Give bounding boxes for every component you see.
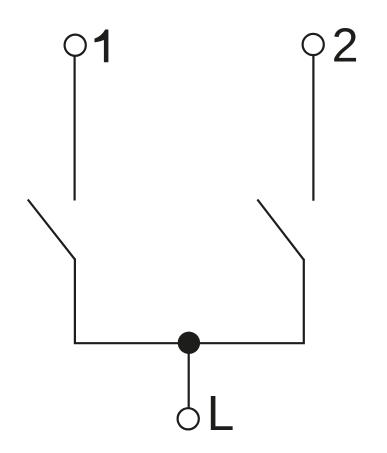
svg-text:L: L bbox=[207, 386, 235, 441]
junction node (common point) bbox=[178, 332, 200, 354]
switch S2 blade (right, open) bbox=[257, 200, 303, 260]
terminal 2 (open circle) bbox=[303, 34, 324, 55]
wire from terminal 1 down to switch contact bbox=[73, 45, 75, 201]
wire from S1 pivot down and right to junction bbox=[75, 258, 190, 343]
wire from junction down to terminal L bbox=[188, 343, 190, 410]
pin label 1 bbox=[95, 30, 109, 63]
terminal 1 (open circle) bbox=[65, 35, 86, 56]
wire from S2 pivot down and left to junction bbox=[188, 259, 304, 343]
svg-text:2: 2 bbox=[332, 19, 359, 72]
terminal L (open circle) bbox=[178, 408, 199, 429]
switch S1 blade (left, open) bbox=[28, 200, 75, 260]
wire from terminal 2 down to switch contact bbox=[312, 45, 314, 201]
